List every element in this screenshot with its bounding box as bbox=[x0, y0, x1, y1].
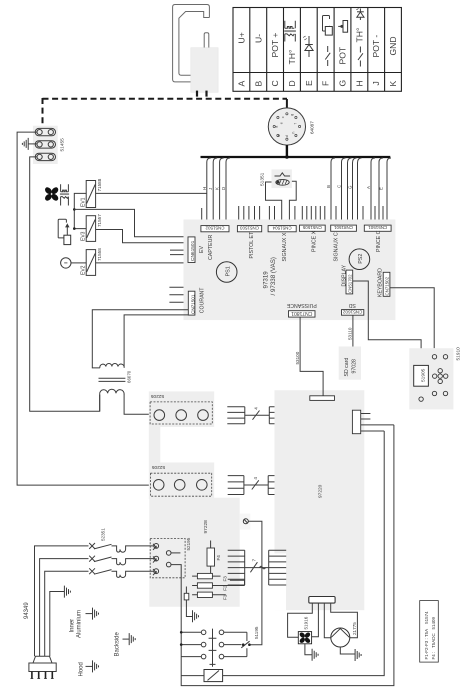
relay contact row 2 bbox=[181, 642, 241, 647]
pistol handle outline bbox=[173, 5, 210, 82]
svg-text:97028: 97028 bbox=[352, 359, 358, 374]
keypad 51910 bbox=[409, 347, 461, 410]
bus drop 7 bbox=[379, 158, 383, 220]
bus drop J bbox=[213, 158, 217, 220]
link F2-F3 loop bbox=[230, 580, 245, 585]
svg-text:SD: SD bbox=[348, 302, 355, 308]
drop letters BCGAE bbox=[326, 185, 384, 190]
wire DISPLAY to 51905 bbox=[353, 281, 421, 365]
svg-text:51351: 51351 bbox=[260, 172, 266, 186]
ground plug earth bbox=[64, 586, 70, 598]
svg-text:71557: 71557 bbox=[97, 214, 102, 227]
connector 51455 oval 3 bbox=[35, 153, 55, 160]
pressure switch at EV3 bbox=[58, 219, 71, 244]
svg-text:51195: 51195 bbox=[254, 626, 259, 639]
bus drop K bbox=[220, 158, 224, 220]
wire EV3 to board CN61501 pin2 bbox=[96, 230, 188, 243]
cable link with count 7 bbox=[245, 559, 269, 573]
contactor box bbox=[204, 670, 223, 682]
svg-text:97228: 97228 bbox=[203, 520, 209, 534]
52195 terminal x1 bbox=[153, 544, 159, 550]
svg-text:J: J bbox=[208, 188, 213, 190]
svg-text:TH°: TH° bbox=[354, 28, 364, 43]
wire pump to ground bbox=[340, 647, 355, 654]
svg-text:F1: F1 bbox=[222, 594, 227, 600]
svg-text:CN71502: CN71502 bbox=[385, 276, 390, 295]
connector CN71501 (COURANT) bbox=[188, 287, 205, 315]
table label F pressure + switch icon bbox=[323, 16, 333, 67]
wire EV2 to board CN61501 pin5 bbox=[96, 262, 188, 264]
main control board 97319/97338 bbox=[184, 220, 396, 321]
svg-text:EV3: EV3 bbox=[81, 231, 87, 241]
svg-text:b: b bbox=[277, 135, 281, 137]
svg-text:64087: 64087 bbox=[310, 121, 315, 134]
wire EV1 right to bus wire H bbox=[96, 192, 207, 194]
ground fan bbox=[312, 649, 318, 661]
wire COURANT 2 to transformer bbox=[124, 315, 188, 367]
svg-text:D: D bbox=[221, 187, 226, 190]
svg-text:TH°: TH° bbox=[287, 50, 297, 65]
svg-text:U-: U- bbox=[253, 34, 263, 43]
terminal block 52205 upper gray bbox=[149, 391, 214, 427]
ground Backside bbox=[115, 631, 136, 656]
board top pin stubs group4 bbox=[302, 206, 325, 220]
note box fuse ratings bbox=[420, 601, 439, 663]
gray strip between 52205 blocks bbox=[149, 427, 161, 463]
plug 94349 bbox=[24, 602, 56, 679]
svg-text:d: d bbox=[285, 135, 289, 137]
svg-text:PINCE X: PINCE X bbox=[312, 230, 318, 252]
pistol stub connector bbox=[204, 33, 209, 48]
svg-text:SIGNAUX X: SIGNAUX X bbox=[282, 232, 288, 261]
terminal block 52205 lower dashed box bbox=[150, 473, 211, 496]
buzzer PS1 bbox=[216, 262, 237, 283]
52195 pin circle 1 bbox=[166, 551, 180, 556]
SD card reader 97028 bbox=[339, 347, 361, 380]
terminal block 52205 upper dashed box bbox=[150, 402, 212, 424]
cable bundle upper left bbox=[227, 407, 245, 424]
CN71501 pins bbox=[169, 287, 183, 302]
cable bundle 7 left bbox=[228, 550, 245, 585]
transformer 66070 bbox=[99, 364, 154, 415]
svg-text:PS1: PS1 bbox=[226, 266, 232, 276]
wire EV1 left + common link bbox=[74, 193, 86, 228]
table label H TH + icons bbox=[354, 9, 364, 67]
svg-text:97319: 97319 bbox=[263, 271, 270, 289]
connector CN51702 (DISPLAY) bbox=[341, 264, 352, 293]
wire PUISSANCE to 97220 bbox=[300, 317, 323, 396]
svg-text:H: H bbox=[354, 80, 364, 86]
svg-text:CN71501: CN71501 bbox=[190, 294, 195, 314]
svg-text:Inner: Inner bbox=[70, 619, 76, 633]
fuse F1 bbox=[192, 592, 227, 600]
bus drop D bbox=[226, 158, 230, 220]
changeover 51195 bbox=[241, 626, 259, 656]
bus drop 5 bbox=[358, 158, 362, 220]
svg-text:EV1: EV1 bbox=[81, 197, 87, 207]
wire KEYBOARD to keypad bbox=[390, 288, 434, 349]
svg-text:F: F bbox=[321, 81, 331, 86]
svg-text:SD card: SD card bbox=[344, 358, 350, 377]
wire fan to ground bbox=[305, 644, 312, 655]
ground Inner Aluminium bbox=[70, 608, 99, 638]
bus drop C bbox=[342, 158, 346, 220]
ground Hood bbox=[79, 660, 99, 676]
svg-text:53110: 53110 bbox=[348, 327, 353, 340]
relay EV3 bbox=[81, 214, 103, 242]
svg-text:EV: EV bbox=[199, 246, 205, 253]
wire pin4 to pump right bbox=[331, 603, 358, 638]
board top pin stubs group5/6 bbox=[336, 206, 383, 220]
fan 51916 bbox=[298, 616, 311, 644]
relay EV2 bbox=[81, 248, 103, 276]
svg-text:a: a bbox=[274, 126, 278, 128]
svg-text:C: C bbox=[270, 80, 280, 86]
svg-text:GND: GND bbox=[388, 36, 398, 55]
svg-text:A: A bbox=[366, 186, 371, 189]
svg-text:G: G bbox=[348, 185, 353, 189]
switch 52351 pole 3 bbox=[89, 568, 111, 574]
cable bundle 7 right bbox=[269, 550, 287, 585]
wire pin2 to fan right bbox=[312, 603, 319, 637]
svg-text:94349: 94349 bbox=[24, 602, 30, 619]
cable link lower with count 4 bbox=[244, 477, 268, 490]
sensor 51351 bbox=[260, 169, 292, 188]
connector 51455 gray box bbox=[33, 126, 58, 164]
svg-text:f: f bbox=[293, 123, 297, 124]
wire 51351 right leg bbox=[289, 181, 296, 219]
svg-text:CN51502: CN51502 bbox=[205, 226, 225, 231]
wire common to board CN61501 pin1 bbox=[74, 209, 188, 236]
svg-text:g: g bbox=[290, 114, 294, 116]
connector CN51504 bbox=[268, 226, 296, 232]
svg-text:c: c bbox=[281, 116, 285, 118]
fuse F2 bbox=[192, 583, 244, 591]
connector CN71502 (KEYBOARD) bbox=[378, 268, 390, 297]
svg-text:DISPLAY: DISPLAY bbox=[341, 264, 347, 286]
connector on 97220 right edge bbox=[352, 410, 394, 434]
junction 64087-bus bbox=[285, 155, 289, 159]
svg-text:h: h bbox=[291, 132, 295, 134]
svg-text:A: A bbox=[236, 81, 246, 87]
board title 97319 / 97338 (VAS) bbox=[263, 257, 278, 295]
relay contact row 1 bbox=[181, 630, 247, 635]
svg-text:51910: 51910 bbox=[456, 347, 462, 361]
trapezoid connector 97220 bottom bbox=[309, 597, 335, 604]
wire SD to SD card bbox=[352, 315, 354, 346]
mini transformer icon beside fan bbox=[60, 184, 69, 205]
svg-text:52205: 52205 bbox=[152, 464, 166, 470]
relay actuator link bbox=[209, 629, 217, 667]
table label G POT + icon bbox=[338, 21, 348, 65]
plug wire 3 bbox=[45, 571, 89, 656]
svg-text:53100: 53100 bbox=[295, 351, 300, 364]
svg-text:Hood: Hood bbox=[79, 662, 85, 676]
svg-text:71588: 71588 bbox=[97, 178, 102, 191]
cable bundle lower left bbox=[228, 476, 244, 495]
svg-text:POT: POT bbox=[338, 46, 348, 64]
plug wire 4 earth bbox=[50, 592, 64, 657]
svg-text:CN81501: CN81501 bbox=[333, 225, 353, 230]
ground at thermal fuse bbox=[193, 610, 199, 622]
display connector 51905 bbox=[414, 365, 429, 386]
svg-text:52205: 52205 bbox=[151, 393, 165, 399]
fuse F3 bbox=[192, 573, 227, 581]
pistol body (gray block) bbox=[191, 48, 218, 93]
thermal element 2 bbox=[112, 559, 154, 565]
svg-text:B: B bbox=[326, 185, 331, 188]
52205 upper circles bbox=[154, 410, 208, 421]
svg-text:51916: 51916 bbox=[304, 616, 309, 629]
svg-text:71558: 71558 bbox=[97, 248, 102, 261]
fuse F4 bbox=[207, 541, 221, 575]
svg-text:4: 4 bbox=[253, 477, 258, 480]
svg-text:POT -: POT - bbox=[371, 35, 381, 58]
pistol pins bbox=[196, 91, 198, 97]
terminal block 52205 lower gray bbox=[149, 463, 214, 500]
connector 51455 oval 1 bbox=[35, 128, 55, 135]
svg-text:PS2: PS2 bbox=[358, 254, 364, 264]
connector CN51502 bbox=[201, 226, 229, 232]
svg-text:Backside: Backside bbox=[115, 631, 121, 656]
wire COURANT 1 to transformer bbox=[92, 310, 188, 368]
bus drop G bbox=[348, 158, 352, 220]
bus drop H bbox=[207, 158, 211, 220]
svg-text:PINCE C: PINCE C bbox=[376, 230, 382, 252]
svg-text:CAPTEUR: CAPTEUR bbox=[208, 235, 214, 260]
svg-text:D: D bbox=[287, 80, 297, 86]
svg-text:CN51505: CN51505 bbox=[302, 225, 322, 230]
svg-text:66070: 66070 bbox=[127, 370, 132, 383]
wire pin1 to fan bbox=[288, 603, 313, 637]
svg-text:F3: F3 bbox=[222, 576, 227, 582]
drop letters HJKD bbox=[202, 187, 226, 190]
svg-text:51455: 51455 bbox=[60, 138, 66, 152]
svg-text:K: K bbox=[215, 187, 220, 190]
wire contactor left bbox=[181, 675, 204, 677]
board top pin stubs group1 bbox=[201, 208, 203, 220]
svg-text:CN51501: CN51501 bbox=[368, 225, 388, 230]
cable link upper with count 4 bbox=[245, 407, 269, 420]
board top pin stubs group2 bbox=[239, 206, 260, 220]
52195 pin circle 2 to relay grid bbox=[166, 425, 394, 686]
svg-text:C: C bbox=[337, 185, 342, 188]
wire contactor right to 97220 bbox=[223, 431, 385, 676]
terminal circle to 51195 wire bbox=[243, 519, 262, 645]
terminal block 52195 dashed box bbox=[150, 538, 185, 577]
connector CN71801 bbox=[289, 310, 316, 317]
ground pump bbox=[355, 649, 361, 661]
svg-text:CN51503: CN51503 bbox=[239, 226, 259, 231]
bus drop B bbox=[331, 158, 335, 220]
svg-text:52351: 52351 bbox=[101, 528, 106, 541]
pump 21775 bbox=[331, 622, 357, 647]
svg-text:H: H bbox=[202, 187, 207, 190]
svg-text:CN61501: CN61501 bbox=[190, 240, 196, 261]
svg-text:COURANT: COURANT bbox=[200, 287, 206, 313]
wire 51351 left leg bbox=[266, 182, 282, 220]
wire 51455 oval3 to transformer secondary bbox=[30, 157, 100, 411]
connector bar on 97220 top bbox=[310, 396, 335, 401]
bus drop 4 bbox=[353, 158, 357, 220]
junction dot B bbox=[73, 227, 76, 230]
svg-text:B: B bbox=[253, 81, 263, 87]
bus drop A bbox=[371, 158, 375, 220]
sub board 97228 gray bbox=[149, 498, 239, 607]
52205 lower circles bbox=[153, 480, 207, 491]
svg-text:CN51504: CN51504 bbox=[272, 226, 292, 231]
CN61501 spare pins bbox=[170, 250, 184, 255]
thermal element 1 bbox=[112, 546, 154, 552]
connector CN51503 bbox=[237, 226, 261, 232]
switch 52351 pole 2 bbox=[89, 556, 111, 562]
table label E diode icon bbox=[303, 36, 313, 57]
table letters row bbox=[236, 80, 398, 87]
svg-text:J: J bbox=[371, 81, 381, 85]
svg-text:CN51602: CN51602 bbox=[342, 310, 362, 315]
bus drop E bbox=[387, 158, 391, 220]
connector CN51505 bbox=[300, 225, 326, 231]
connector 51455 oval 2 bbox=[35, 141, 55, 148]
dashed cable pistol to 64087 and 51455 bbox=[43, 98, 288, 125]
svg-text:EV2: EV2 bbox=[81, 265, 87, 275]
svg-text:U+: U+ bbox=[236, 32, 246, 43]
thermal element 3 bbox=[112, 571, 154, 577]
svg-text:CN51702: CN51702 bbox=[347, 274, 352, 293]
junction dots rows bbox=[180, 631, 183, 634]
wire pin3 to pump bbox=[324, 603, 331, 638]
52195 terminal x3 bbox=[153, 569, 159, 575]
svg-text:G: G bbox=[338, 80, 348, 87]
svg-text:52195: 52195 bbox=[186, 537, 191, 550]
motor M at EV2 bbox=[61, 258, 87, 268]
svg-text:F2: F2 bbox=[222, 585, 227, 591]
connector CN51602 bbox=[342, 310, 364, 316]
svg-text:POT +: POT + bbox=[270, 33, 280, 58]
bus line bbox=[201, 156, 391, 158]
svg-text:51905: 51905 bbox=[421, 368, 427, 382]
svg-text:E: E bbox=[304, 80, 314, 86]
cable bundle lower right bbox=[268, 476, 286, 495]
board top pin stubs group3 bbox=[269, 206, 295, 220]
switch 52351 pole 1 bbox=[89, 543, 111, 549]
97228 circle terminal pad bbox=[240, 514, 251, 530]
svg-text:KEYBOARD: KEYBOARD bbox=[378, 268, 384, 297]
connector CN51501 bbox=[364, 225, 391, 231]
svg-text:F1-F2-F3 : T5A 51574: F1-F2-F3 : T5A 51574 bbox=[424, 611, 429, 660]
svg-text:SIGNAUX C: SIGNAUX C bbox=[334, 232, 340, 261]
terminal legend table bbox=[233, 8, 401, 92]
svg-text:F4 : T5ADC 51409: F4 : T5ADC 51409 bbox=[431, 616, 436, 659]
svg-text:E: E bbox=[379, 187, 384, 190]
connector CN81501 bbox=[331, 225, 357, 231]
relay contact row 3 bbox=[181, 654, 247, 659]
svg-text:21775: 21775 bbox=[352, 622, 357, 635]
relay EV1 bbox=[81, 178, 103, 207]
ground at 51455 bbox=[22, 138, 37, 150]
plug wire 1 bbox=[35, 546, 89, 656]
svg-text:e: e bbox=[279, 122, 283, 124]
cable bundle upper right bbox=[269, 407, 286, 424]
svg-text:7: 7 bbox=[252, 559, 257, 562]
svg-text:F4: F4 bbox=[216, 555, 221, 561]
fan icon (flue fan) bbox=[44, 186, 60, 202]
plug wire 2 bbox=[40, 559, 89, 657]
svg-text:Aluminium: Aluminium bbox=[77, 610, 83, 638]
lead 64087 to bus bbox=[286, 145, 288, 157]
round connector 64087 bbox=[268, 108, 314, 145]
junction dot A bbox=[73, 208, 76, 211]
52195 terminal x2 bbox=[153, 556, 159, 562]
svg-text:PISTOL ET: PISTOL ET bbox=[249, 231, 255, 259]
table label D TH + icon bbox=[284, 21, 297, 65]
svg-text:4: 4 bbox=[253, 407, 258, 410]
wire 51455 oval1 to 52205-2 (left long wire) bbox=[17, 132, 153, 485]
svg-text:CN71801: CN71801 bbox=[291, 310, 312, 316]
svg-text:K: K bbox=[388, 81, 398, 87]
connector CN61501 (EV) bbox=[188, 237, 205, 263]
svg-text:97220: 97220 bbox=[318, 484, 324, 498]
buzzer PS2 bbox=[349, 249, 370, 270]
svg-text:/ 97338 (VAS): / 97338 (VAS) bbox=[270, 257, 277, 295]
power board 97220 gray bbox=[275, 390, 365, 610]
thermal fuse component bbox=[184, 587, 192, 617]
svg-text:PUISSANCE: PUISSANCE bbox=[286, 302, 317, 308]
